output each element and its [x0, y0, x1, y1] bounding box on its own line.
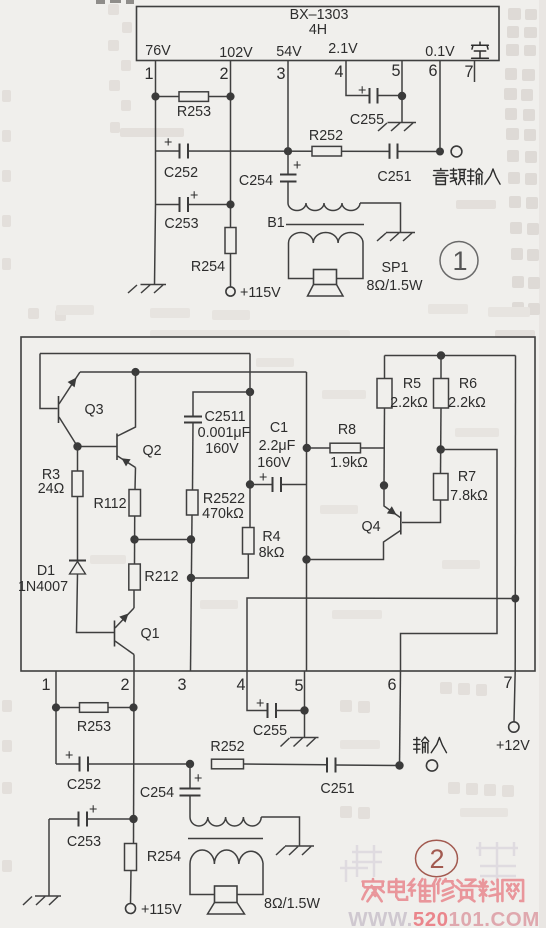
resistor R252 (bottom)	[210, 739, 327, 769]
svg-text:Q4: Q4	[361, 519, 380, 535]
capacitor C2511	[184, 392, 251, 490]
wire pin 5 vertical	[401, 61, 403, 123]
node Q3/Q2/R3 junction	[73, 442, 81, 450]
resistor R253 (bottom)	[56, 703, 134, 735]
wire R5 bottom to Q4 emitter node	[383, 408, 386, 486]
transistor Q1	[115, 608, 160, 655]
wire R254 to +115V terminal	[230, 254, 232, 288]
wire node to R2522 node	[135, 539, 192, 541]
capacitor C251	[377, 144, 411, 186]
svg-text:160V: 160V	[257, 455, 291, 471]
node R6 top junction	[437, 351, 445, 359]
svg-text:WWW.520101.COM: WWW.520101.COM	[348, 908, 540, 928]
label 音频输入	[433, 169, 500, 185]
wire C254 to transformer	[287, 182, 289, 204]
node C253/pin2 junction (bottom)	[129, 815, 137, 823]
wire Q4 collector to pin5 rail	[307, 531, 401, 560]
svg-text:4: 4	[236, 676, 245, 694]
ground (pin 5, bottom)	[281, 738, 319, 747]
svg-text:2: 2	[429, 844, 444, 874]
wire R3 to D1	[77, 497, 79, 561]
svg-text:4H: 4H	[309, 22, 327, 38]
module outline box	[21, 337, 535, 671]
node R6/R7/pin6 junction	[437, 445, 445, 453]
wire pin 2 lead down to R254	[133, 671, 136, 844]
transformer secondary winding (bottom)	[190, 850, 263, 864]
resistor R5 2.2k	[377, 356, 428, 412]
svg-text:3: 3	[177, 676, 186, 694]
wire pin6 feedback (node to pin 6)	[401, 450, 498, 672]
node pin2/R253 junction	[226, 92, 234, 100]
circled figure number 1	[440, 242, 478, 280]
svg-text:54V: 54V	[276, 44, 302, 60]
svg-text:8Ω/1.5W: 8Ω/1.5W	[264, 896, 320, 912]
transformer core (bottom)	[188, 838, 263, 840]
pin 7 stub (NC)	[474, 61, 476, 83]
wire rail A right segment (R5/R6 top to pin7 drop)	[385, 355, 516, 357]
svg-text:2.1V: 2.1V	[328, 41, 358, 57]
svg-text:2.2μF: 2.2μF	[259, 438, 296, 454]
label 空 (pin 7 empty)	[472, 42, 489, 58]
svg-text:7: 7	[464, 63, 473, 81]
wire pin 4 to C255	[346, 61, 370, 96]
svg-text:+: +	[293, 158, 301, 174]
svg-text:SP1: SP1	[381, 260, 408, 276]
wire pin1 branch down to C253	[155, 151, 157, 205]
capacitor C251 (bottom)	[320, 758, 399, 798]
wire R254 to +115V terminal (bottom)	[130, 871, 133, 904]
wire secondary right to speaker (bottom)	[237, 864, 263, 895]
transformer B1 secondary winding	[289, 232, 363, 243]
transformer primary winding (bottom)	[190, 817, 261, 826]
svg-text:1.9kΩ: 1.9kΩ	[330, 455, 368, 471]
wire primary right to ground (bottom)	[261, 817, 299, 846]
svg-text:R212: R212	[144, 569, 178, 585]
resistor R254 (bottom)	[125, 844, 182, 871]
wire C254 to transformer (bottom)	[189, 796, 191, 818]
resistor R254	[191, 228, 236, 276]
capacitor C253 (bottom)	[49, 802, 134, 850]
terminal input	[426, 760, 437, 771]
node Q2 collector junction	[131, 368, 139, 376]
svg-text:R6: R6	[459, 376, 477, 392]
svg-text:R254: R254	[147, 849, 181, 865]
svg-text:+12V: +12V	[496, 738, 530, 754]
svg-text:8Ω/1.5W: 8Ω/1.5W	[367, 278, 423, 294]
wire top rail A (Q3 base loop)	[40, 353, 250, 355]
svg-text:+: +	[358, 83, 366, 99]
svg-text:Q1: Q1	[140, 626, 159, 642]
transformer B1 primary winding	[288, 203, 360, 211]
wire pin 6 lead down to input (bottom)	[400, 671, 401, 766]
node R8 left junction	[303, 444, 311, 452]
svg-text:D1: D1	[37, 563, 55, 579]
wire Q2 collector vertical	[118, 372, 136, 436]
svg-text:0.001μF: 0.001μF	[198, 425, 251, 441]
resistor R2522 470k	[187, 490, 246, 522]
wire rail A drop (x=250)	[249, 354, 251, 528]
transistor Q2	[78, 434, 162, 468]
node pin3 junction (bottom)	[186, 760, 194, 768]
svg-text:3: 3	[276, 65, 285, 83]
resistor R112	[93, 490, 140, 517]
resistor R7 7.8k	[434, 469, 489, 504]
svg-text:B1: B1	[267, 215, 285, 231]
wire pin7 vertical	[514, 356, 516, 672]
wire bottom main horizontal (pin1 corner to C252 to pin3)	[56, 763, 190, 765]
watermark 家电维修资料网	[362, 879, 523, 901]
node Q4 collector wire junction	[302, 555, 310, 563]
diode D1 1N4007	[18, 561, 86, 596]
wire D1 to Q1 base	[77, 574, 115, 633]
node pin2/R253 junction (bottom)	[129, 703, 137, 711]
svg-text:C252: C252	[67, 777, 101, 793]
resistor R253	[156, 92, 231, 120]
speaker (bottom)	[208, 886, 321, 914]
svg-text:24Ω: 24Ω	[38, 481, 65, 497]
svg-text:+: +	[65, 748, 73, 764]
svg-text:7: 7	[503, 674, 512, 692]
wire Q1 emitter down to pin 2	[133, 655, 135, 672]
svg-text:4: 4	[334, 63, 343, 81]
terminal +12V	[509, 722, 519, 732]
svg-text:C251: C251	[320, 781, 354, 797]
node pin3 / main wire junction	[284, 147, 292, 155]
ghost bleed shapes near figure 2 (decorative)	[340, 842, 518, 882]
svg-text:76V: 76V	[145, 43, 171, 59]
svg-text:470kΩ: 470kΩ	[202, 506, 244, 522]
svg-text:2: 2	[219, 65, 228, 83]
svg-text:R253: R253	[177, 104, 211, 120]
svg-text:2: 2	[120, 676, 129, 694]
capacitor C255	[350, 83, 402, 128]
capacitor C255 (bottom)	[253, 696, 305, 739]
wire C253 left to ground	[155, 205, 156, 285]
svg-text:R5: R5	[403, 376, 421, 392]
wire secondary left to speaker	[289, 243, 314, 279]
svg-text:+: +	[190, 188, 198, 204]
wire main horizontal (C252 right to audio input)	[156, 150, 441, 153]
svg-text:5: 5	[391, 62, 400, 80]
wire R7 bottom to Q4 base	[402, 500, 441, 523]
svg-text:Q2: Q2	[142, 443, 161, 459]
wire pin 1 lead down	[55, 671, 57, 764]
svg-text:102V: 102V	[219, 45, 253, 61]
wire R4 bottom return to pin3 rail	[191, 554, 248, 578]
node pin1/R253 junction	[151, 92, 159, 100]
svg-text:6: 6	[387, 676, 396, 694]
svg-text:Q3: Q3	[84, 402, 103, 418]
svg-text:C255: C255	[253, 723, 287, 739]
wire primary right to ground	[360, 203, 401, 233]
svg-text:BX–1303: BX–1303	[290, 7, 349, 23]
label 输入	[414, 737, 447, 753]
resistor R212	[129, 564, 179, 590]
wire secondary left to speaker (bottom)	[190, 864, 215, 895]
svg-text:2.2kΩ: 2.2kΩ	[390, 395, 428, 411]
wire pin 1 vertical	[155, 61, 157, 152]
node pin4/pin7 junction	[511, 595, 519, 603]
svg-text:C253: C253	[164, 216, 198, 232]
wire pin 2 vertical down to R254	[230, 61, 232, 229]
wire Q3 base loop left drop	[40, 354, 58, 409]
node Q4 emitter junction	[380, 481, 388, 489]
ground (transformer B1 right)	[377, 233, 415, 242]
speaker SP1	[308, 260, 423, 296]
terminal audio input	[451, 146, 462, 157]
svg-text:C253: C253	[67, 834, 101, 850]
svg-text:R252: R252	[210, 739, 244, 755]
svg-text:1N4007: 1N4007	[18, 579, 68, 595]
svg-text:R4: R4	[262, 529, 280, 545]
dark cut-off print fragments at top edge (decorative)	[96, 0, 134, 4]
node input junction (bottom)	[395, 761, 403, 769]
svg-text:R112: R112	[93, 496, 126, 512]
node C2511 top junction	[246, 388, 254, 396]
resistor R8 1.9k	[307, 422, 385, 471]
capacitor C252 (bottom)	[65, 748, 101, 793]
resistor R252	[309, 128, 343, 156]
wire rail B (Q3 emitter row)	[80, 371, 307, 373]
capacitor C253	[156, 188, 231, 232]
wire pin 4 riser	[247, 598, 515, 671]
svg-text:0.1V: 0.1V	[425, 44, 455, 60]
svg-text:C251: C251	[377, 169, 411, 185]
faint page bleed-through texture (decorative)	[504, 8, 540, 315]
svg-text:R252: R252	[309, 128, 343, 144]
svg-text:1: 1	[452, 246, 467, 276]
svg-text:C254: C254	[140, 785, 174, 801]
wire pin 3 vertical	[287, 61, 289, 175]
svg-text:+: +	[89, 802, 97, 818]
svg-text:+115V: +115V	[141, 902, 182, 918]
ground (below C253)	[128, 285, 166, 294]
svg-text:R254: R254	[191, 259, 225, 275]
node audio input junction	[436, 148, 444, 156]
node C255/pin5 junction (bottom)	[300, 706, 308, 714]
svg-text:R7: R7	[458, 469, 476, 485]
svg-text:C2511: C2511	[204, 409, 245, 425]
svg-text:C1: C1	[270, 420, 288, 436]
wire R6 bottom to node	[440, 408, 443, 474]
node R112/R212 junction	[130, 535, 138, 543]
resistor R3 24ohm	[38, 447, 83, 498]
svg-text:8kΩ: 8kΩ	[259, 545, 285, 561]
svg-text:2.2kΩ: 2.2kΩ	[448, 395, 486, 411]
capacitor C254 (bottom)	[140, 771, 202, 801]
wire C253 left to ground	[48, 819, 50, 896]
svg-text:C255: C255	[350, 112, 384, 128]
svg-text:7.8kΩ: 7.8kΩ	[450, 488, 488, 504]
module BX-1303 outline box	[137, 7, 500, 61]
svg-text:C254: C254	[239, 173, 273, 189]
node C255/pin5 junction	[398, 92, 406, 100]
svg-text:+: +	[256, 696, 264, 712]
capacitor C252	[164, 135, 198, 181]
wire pin3 lead down through C254 (bottom)	[189, 764, 191, 788]
ground (transformer right, bottom)	[276, 846, 314, 855]
capacitor C1 2.2uF	[250, 420, 307, 492]
svg-text:+: +	[259, 470, 267, 486]
svg-text:R253: R253	[77, 719, 111, 735]
svg-text:1: 1	[144, 65, 153, 83]
wire pin 4 lead to C255 (bottom)	[247, 671, 268, 711]
svg-text:+115V: +115V	[240, 285, 281, 301]
wire secondary right to speaker	[337, 243, 364, 279]
node C1 left junction	[246, 480, 254, 488]
wire Q1 collector up to R212	[133, 590, 135, 608]
wire rail B drop / pin 5 vertical	[306, 372, 308, 671]
transformer B1 core	[286, 224, 364, 226]
wire R2522 down to pin 3	[191, 515, 193, 671]
node R2522/R112 wire junction	[187, 535, 195, 543]
terminal +115V (bottom)	[126, 904, 136, 914]
wire R112 to node	[134, 516, 136, 564]
resistor R6 2.2k	[434, 356, 487, 412]
node pin1/R253 junction (bottom)	[52, 703, 60, 711]
capacitor C254	[239, 158, 301, 189]
terminal +115V	[226, 287, 235, 296]
svg-text:1: 1	[41, 676, 50, 694]
ground (below C253, bottom)	[23, 896, 61, 905]
wire pin 7 lead to +12V (bottom)	[514, 671, 515, 722]
circled figure number 2	[416, 840, 458, 876]
ground (pin 5)	[378, 123, 416, 132]
transistor Q4	[361, 486, 400, 536]
svg-text:+: +	[164, 135, 172, 151]
wire pin 5 lead (bottom)	[304, 671, 306, 737]
svg-text:R2522: R2522	[203, 491, 245, 507]
svg-text:+: +	[194, 771, 202, 787]
resistor R4 8k	[243, 528, 285, 562]
node C253/pin2 junction	[226, 200, 234, 208]
transistor Q3	[59, 372, 104, 447]
wire pin 6 vertical	[439, 61, 441, 152]
svg-text:160V: 160V	[205, 441, 239, 457]
svg-text:C252: C252	[164, 165, 198, 181]
svg-text:6: 6	[428, 62, 437, 80]
svg-text:R8: R8	[338, 422, 356, 438]
wire Q2 emitter to R112	[134, 468, 137, 490]
node R4-return junction	[187, 574, 195, 582]
svg-text:5: 5	[294, 677, 303, 695]
